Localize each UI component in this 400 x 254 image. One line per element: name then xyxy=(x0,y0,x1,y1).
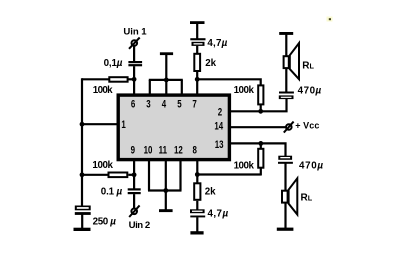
svg-text:100k: 100k xyxy=(92,160,113,171)
svg-text:100k: 100k xyxy=(93,85,113,96)
svg-text:9: 9 xyxy=(131,144,135,157)
svg-text:3: 3 xyxy=(146,98,150,111)
svg-text:RL: RL xyxy=(301,192,313,203)
svg-text:7: 7 xyxy=(192,98,196,111)
svg-text:100k: 100k xyxy=(234,85,255,96)
svg-text:1: 1 xyxy=(121,119,126,132)
svg-text:8: 8 xyxy=(193,144,198,157)
svg-text:470µ: 470µ xyxy=(299,160,323,171)
svg-text:250 µ: 250 µ xyxy=(93,216,117,227)
svg-text:10: 10 xyxy=(144,144,153,157)
svg-text:Uin 1: Uin 1 xyxy=(123,26,147,37)
svg-text:0.1 µ: 0.1 µ xyxy=(101,187,123,198)
svg-text:12: 12 xyxy=(174,144,183,157)
svg-text:Uin 2: Uin 2 xyxy=(129,220,151,231)
svg-text:+ Vcc: + Vcc xyxy=(295,121,319,131)
svg-text:6: 6 xyxy=(131,98,135,111)
svg-text:2k: 2k xyxy=(205,186,216,197)
svg-text:0,1µ: 0,1µ xyxy=(104,58,123,69)
svg-text:RL: RL xyxy=(302,61,314,72)
svg-text:14: 14 xyxy=(214,120,223,133)
svg-text:4,7µ: 4,7µ xyxy=(208,208,229,219)
svg-text:5: 5 xyxy=(177,98,182,111)
svg-text:2: 2 xyxy=(218,106,222,119)
svg-text:100k: 100k xyxy=(234,160,255,171)
svg-text:470µ: 470µ xyxy=(298,85,322,96)
svg-text:11: 11 xyxy=(159,144,168,157)
svg-text:13: 13 xyxy=(215,139,224,152)
svg-text:4: 4 xyxy=(162,98,167,111)
svg-text:4,7µ: 4,7µ xyxy=(207,38,227,49)
svg-text:2k: 2k xyxy=(205,58,216,69)
